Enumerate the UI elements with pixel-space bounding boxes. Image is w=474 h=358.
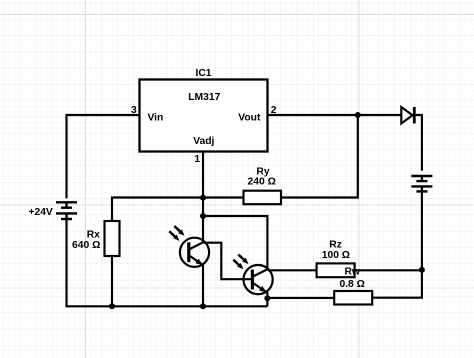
- svg-text:Vadj: Vadj: [193, 136, 214, 147]
- svg-text:Vin: Vin: [148, 112, 164, 123]
- svg-text:640 Ω: 640 Ω: [72, 240, 100, 251]
- wire Vin pin3 to left battery top: [67, 115, 140, 198]
- wire Rz right to battery wire: [355, 269, 422, 271]
- phototransistor Q2: [233, 255, 272, 295]
- wire Rx top to Ry left: [112, 198, 244, 222]
- wire Q2 emitter junction to Rw left: [267, 297, 334, 299]
- svg-text:1: 1: [194, 154, 200, 165]
- svg-text:LM317: LM317: [188, 92, 220, 103]
- svg-text:3: 3: [131, 105, 137, 116]
- wire Vadj junction to Q2 collector: [203, 216, 267, 269]
- wire Q1 emitter down: [202, 265, 204, 306]
- junction Rx bottom at rail: [109, 303, 115, 309]
- junction on Vadj at Rx-Ry wire: [200, 195, 206, 201]
- resistor Ry: [244, 191, 282, 205]
- svg-text:100 Ω: 100 Ω: [322, 250, 350, 261]
- wire Q2 emitter down: [266, 292, 268, 306]
- resistor Rw: [334, 291, 372, 305]
- svg-text:Rw: Rw: [344, 266, 360, 277]
- phototransistor Q1: [169, 226, 209, 267]
- junction Q2 emitter to Rw: [264, 295, 270, 301]
- resistor Rx: [105, 221, 120, 256]
- svg-text:Rz: Rz: [329, 239, 342, 250]
- battery B1 +24V: [56, 202, 77, 219]
- wire battery bottom to bottom rail: [67, 219, 268, 306]
- wire diode cathode to right battery top: [414, 115, 422, 171]
- svg-text:Rx: Rx: [87, 229, 100, 240]
- wire Rw right to right battery bottom: [372, 191, 422, 297]
- junction Vout line to Ry: [355, 112, 361, 118]
- diode D1: [401, 107, 414, 124]
- wire Rz left to Q2 collector: [268, 269, 317, 271]
- resistor Rz: [317, 263, 355, 277]
- IC IC1 LM317: [140, 80, 268, 152]
- wire Ry left: [242, 196, 245, 198]
- junction on Vadj at Q2 branch: [200, 213, 206, 219]
- svg-text:240 Ω: 240 Ω: [248, 177, 276, 188]
- wire Ry right to Vout line: [281, 115, 358, 198]
- battery B2: [411, 176, 432, 191]
- junction Q1 emitter at rail: [200, 303, 206, 309]
- svg-text:Vout: Vout: [238, 112, 261, 123]
- svg-text:+24V: +24V: [28, 207, 52, 218]
- junction Rz right at battery wire: [419, 267, 425, 273]
- wire Vout pin2 to diode: [268, 114, 401, 116]
- wire Vadj pin1 down: [202, 152, 204, 243]
- svg-text:IC1: IC1: [195, 68, 211, 79]
- wire Rx bottom: [111, 256, 113, 306]
- svg-text:0.8 Ω: 0.8 Ω: [339, 279, 364, 290]
- svg-text:2: 2: [271, 105, 277, 116]
- wire Q1 collector to Q2 base: [204, 243, 253, 280]
